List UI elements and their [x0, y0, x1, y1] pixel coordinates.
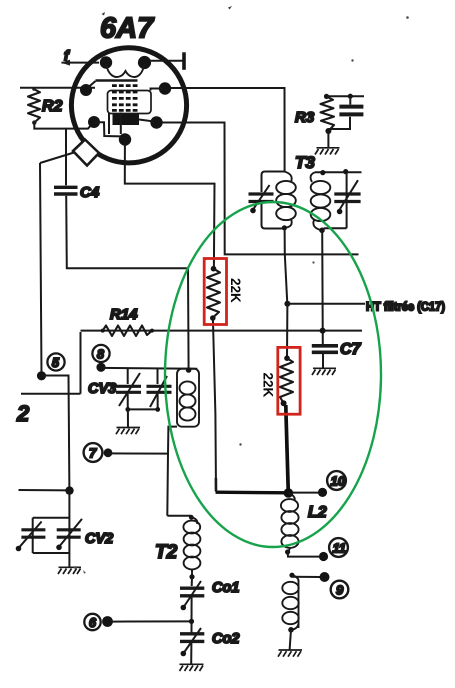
grid cap diamond: [73, 140, 99, 166]
svg-text:5: 5: [52, 356, 60, 370]
variable capacitor CV3 section1: [116, 369, 141, 410]
wire: T2 to Co1: [191, 577, 193, 586]
ground at C7: [312, 368, 336, 375]
ground at Co2: [180, 664, 204, 671]
variable capacitor Co2: [180, 628, 204, 656]
variable capacitor Co1: [180, 581, 204, 610]
T3 primary coil loops: [284, 172, 292, 183]
wire: R3 top rail: [327, 95, 365, 97]
svg-text:6A7: 6A7: [100, 13, 155, 45]
capacitor C4: [54, 187, 78, 194]
tube pins: [80, 56, 171, 146]
arrowhead f: [61, 60, 70, 66]
wire: C4 bottom to oscillator coil top: [66, 196, 188, 370]
svg-text:11: 11: [333, 541, 347, 556]
ground at R3: [315, 148, 340, 155]
svg-text:22K: 22K: [260, 373, 275, 398]
antenna coil bottom: top dot: [289, 573, 294, 578]
variable capacitor block CV2: [16, 491, 82, 553]
tube interior: anode to pin wire: [139, 120, 154, 122]
svg-text:7: 7: [89, 446, 97, 461]
CV2 section1: [21, 530, 45, 537]
ground at bottom coil: [278, 650, 302, 657]
green highlight ellipse: [165, 202, 381, 547]
svg-text:CV2: CV2: [85, 531, 113, 547]
highlight box around 22K R-b: [278, 347, 300, 414]
wire: 22K-b thick lead down to junction: [286, 405, 289, 493]
svg-text:6: 6: [89, 616, 97, 630]
wire: T3 secondary bottom down to C7: [321, 230, 324, 344]
inductor L2: [281, 493, 299, 552]
node 11 terminal: [285, 538, 348, 561]
wire: osc coil bottom to left rail: [167, 427, 177, 516]
tube interior: control box outline: [108, 91, 152, 114]
wire: pin6 lead to HT rail: [162, 123, 359, 255]
T3 secondary right edge: [324, 172, 347, 228]
resistor R2: [28, 87, 40, 125]
wire: CV2 ground stem: [68, 553, 70, 567]
node dot on R3 rail: [348, 94, 353, 99]
tube interior: pin3 tick: [88, 81, 96, 88]
CV2 section2: [57, 530, 81, 537]
tube interior: grid bar: [96, 79, 138, 82]
tube interior: pin4 wire: [151, 89, 164, 91]
resistor R3: [321, 94, 335, 134]
svg-text:9: 9: [336, 583, 344, 598]
svg-text:22K: 22K: [228, 278, 243, 303]
node 7 terminal: [84, 443, 113, 462]
T3 secondary tuning cap: [334, 194, 360, 202]
wire: node8 rail to osc coil: [101, 367, 197, 370]
svg-text:R14: R14: [110, 306, 138, 323]
svg-text:C7: C7: [340, 341, 362, 358]
node 5 terminal: [37, 353, 65, 380]
node 6 terminal: [84, 614, 113, 630]
oscillator coil (T2 primary) box: [177, 369, 199, 427]
capacitor at R3 (bypass): [339, 107, 363, 115]
svg-text:2: 2: [16, 401, 30, 426]
wire: bottom coil ground stem: [288, 627, 294, 633]
svg-text:Co1: Co1: [212, 580, 239, 596]
svg-text:R3: R3: [295, 109, 315, 126]
svg-text:8: 8: [97, 348, 104, 362]
node HT junction dot: [284, 301, 290, 307]
node dot osc coil top: [186, 367, 192, 373]
wire: grid input line y87.5 from left edge to tube pin: [20, 87, 95, 89]
wire: T3 primary bottom down to HT node: [285, 229, 288, 304]
wire: C7 ground stem: [322, 354, 324, 368]
svg-text:R2: R2: [42, 98, 63, 115]
wire: C4 branch down from R2 wire: [65, 129, 67, 186]
resistor 22K R-b: [280, 355, 293, 406]
inductor T2 coil: [183, 517, 200, 575]
wire: HT filtree lead: [287, 303, 365, 305]
T3 primary tuning cap: [249, 194, 274, 202]
wire: node7 lead: [108, 452, 168, 454]
wire: R3 ground stem: [327, 131, 329, 148]
wire: AVC rail y330.6 long: [21, 331, 362, 394]
tube interior: pin5 wire: [95, 122, 121, 136]
svg-text:C4: C4: [80, 184, 100, 201]
wire: 22K-a down to junction, thick L: [213, 318, 216, 491]
svg-text:10: 10: [331, 474, 346, 489]
svg-text:Co2: Co2: [212, 631, 239, 647]
wire: filament arrow: [62, 62, 100, 64]
svg-text:T3: T3: [295, 153, 315, 172]
wire: left slant down to node 5: [40, 163, 42, 376]
svg-text:T2: T2: [155, 542, 178, 563]
wire: Co2 ground stem: [190, 643, 192, 664]
wire: pin7 bottom lead to 22K: [125, 146, 215, 269]
ground at CV3: [116, 428, 140, 435]
filament terminal bar: [182, 52, 186, 70]
tube 6A7 envelope U1: [71, 48, 186, 163]
node junction dot L2 top: [284, 488, 294, 498]
ground at CV2: [58, 567, 81, 574]
transformer T3 secondary (right unit): [311, 169, 362, 233]
inductor bottom coil: [282, 575, 298, 629]
wire: filament right lead: [149, 60, 184, 62]
node 8 terminal: [92, 345, 109, 372]
node 9 terminal: [292, 572, 348, 598]
resistor R14: [101, 326, 154, 337]
dust specks: [74, 6, 409, 574]
filament arc inside tube: [106, 64, 145, 77]
svg-text:HT filtrée (C17): HT filtrée (C17): [366, 300, 445, 314]
wire: CV3 ground stem: [127, 409, 129, 427]
wire: cap stems at R3: [328, 96, 350, 129]
wire: node6 lead: [112, 620, 191, 622]
wire: Co1 to Co2 stem: [191, 598, 193, 633]
transformer T3 primary (left unit): [249, 172, 296, 231]
wire: grid cap to left slant: [40, 153, 74, 164]
wire: node5 to CV2 feed: [42, 376, 70, 491]
wire: T2 top lead: [167, 515, 191, 517]
svg-text:CV3: CV3: [88, 381, 116, 397]
tube interior: mesh grid: [112, 86, 139, 111]
wire: R2 bottom to tube pin 8oclock: [34, 123, 93, 129]
tube interior: anode plate: [113, 114, 140, 125]
T3 secondary coil loops: [311, 172, 315, 182]
highlight box around 22K R-a: [204, 259, 226, 325]
variable capacitor CV3 section2: [147, 369, 172, 410]
node 10 terminal: [292, 471, 346, 497]
wire: pin4 plate lead to T3: [171, 88, 285, 172]
svg-text:L2: L2: [308, 504, 327, 521]
tube interior: screen wires: [108, 113, 110, 135]
wire: CV2 feed tap: [65, 486, 73, 494]
node dot C7 tap: [320, 328, 326, 334]
resistor 22K R-a: [207, 266, 220, 321]
wire: 22K-b top lead: [286, 304, 288, 358]
wire: CV3 bottom bar: [128, 408, 158, 410]
capacitor C7: [312, 346, 338, 353]
